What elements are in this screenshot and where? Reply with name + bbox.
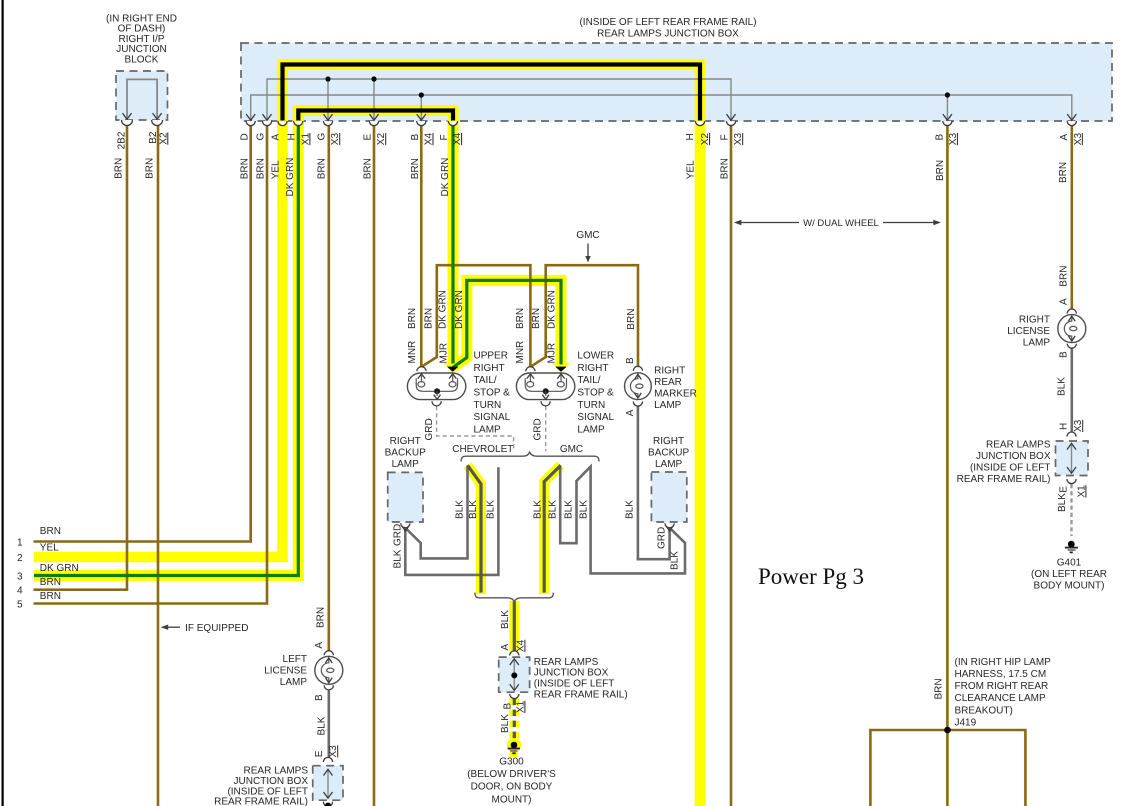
- svg-text:GMC: GMC: [576, 230, 599, 241]
- svg-text:X1: X1: [1076, 485, 1087, 498]
- svg-text:A: A: [625, 409, 636, 416]
- svg-text:DK GRN: DK GRN: [40, 563, 79, 574]
- cups at left license lamp: [324, 651, 333, 656]
- svg-text:RIGHT: RIGHT: [577, 363, 608, 374]
- svg-text:1: 1: [17, 538, 23, 549]
- svg-text:X3: X3: [328, 745, 339, 758]
- pin wedge upper MJR: [447, 367, 458, 372]
- svg-text:H: H: [286, 133, 297, 140]
- lamp: upper right tail/stop and turn signal: [407, 373, 465, 400]
- svg-text:RIGHT: RIGHT: [474, 363, 505, 374]
- svg-text:BLK: BLK: [1057, 493, 1068, 512]
- svg-text:BRN: BRN: [114, 158, 125, 179]
- svg-text:A: A: [271, 134, 282, 141]
- svg-text:BRN: BRN: [933, 678, 944, 699]
- svg-text:REAR FRAME RAIL): REAR FRAME RAIL): [214, 797, 308, 806]
- svg-text:MNR: MNR: [407, 341, 418, 364]
- wire BRN branch lower MNR to marker lamp GMC: [530, 265, 638, 367]
- wire GRD dashed lower tail lamp: [545, 406, 547, 451]
- svg-text:BLK: BLK: [455, 500, 466, 519]
- svg-text:BLK: BLK: [486, 500, 497, 519]
- svg-text:X4: X4: [515, 639, 526, 652]
- connector arrows at junction box exits: [246, 114, 255, 120]
- svg-text:UPPER: UPPER: [474, 351, 508, 362]
- lamp: lower right tail/stop and turn signal: [516, 373, 574, 400]
- svg-text:BLK: BLK: [317, 716, 328, 735]
- svg-text:W/ DUAL WHEEL: W/ DUAL WHEEL: [803, 218, 879, 229]
- svg-text:LOWER: LOWER: [577, 351, 614, 362]
- wire GRD dashed upper tail lamp: [437, 406, 514, 451]
- wire BRN F X3 down page: [730, 125, 733, 806]
- W/ DUAL WHEEL span arrows: [734, 220, 742, 225]
- wire BLK backup Chevrolet drop: [405, 467, 498, 575]
- svg-text:REAR LAMPS: REAR LAMPS: [534, 657, 599, 668]
- node E X2: [371, 76, 376, 81]
- svg-text:X3: X3: [1073, 133, 1084, 146]
- cups at small junction boxes: [510, 651, 519, 656]
- svg-text:HARNESS, 17.5 CM: HARNESS, 17.5 CM: [955, 669, 1047, 680]
- cups at backup lamp pins: [401, 523, 410, 528]
- wire BRN row1 to connector D: [34, 125, 251, 542]
- svg-text:BRN: BRN: [316, 607, 327, 628]
- svg-text:RIGHT: RIGHT: [654, 365, 685, 376]
- svg-text:STOP &: STOP &: [474, 388, 511, 399]
- halo BLK brace to A X4: [509, 601, 519, 651]
- svg-text:X1: X1: [515, 700, 526, 713]
- wire BLK dashed right box to G401: [1070, 484, 1072, 536]
- wire BRN row5 to connector G: [34, 125, 268, 604]
- svg-text:MARKER: MARKER: [654, 388, 697, 399]
- svg-text:BLK: BLK: [500, 610, 511, 629]
- drop wire to G X3: [327, 79, 329, 120]
- svg-text:D: D: [239, 133, 250, 140]
- svg-text:BRN: BRN: [410, 158, 421, 179]
- node B X4: [419, 92, 424, 97]
- brace under ground groups to A X4: [475, 593, 554, 602]
- wire BLK highlighted core Chevrolet: [468, 465, 482, 592]
- svg-text:3: 3: [17, 571, 23, 582]
- svg-text:B: B: [410, 134, 421, 141]
- svg-text:LICENSE: LICENSE: [264, 665, 307, 676]
- halo BLK Chevrolet ground wire: [468, 465, 482, 594]
- svg-text:BLK: BLK: [625, 500, 636, 519]
- svg-text:5: 5: [17, 600, 23, 611]
- wire YEL highlighted: row2, connector A, bus, connector H X2, down page: [34, 65, 700, 806]
- svg-text:X2: X2: [376, 133, 387, 146]
- svg-text:BRN: BRN: [407, 308, 418, 329]
- svg-text:F: F: [720, 134, 731, 140]
- page border left edge: [2, 0, 4, 806]
- svg-text:G300: G300: [499, 757, 524, 768]
- svg-text:F: F: [439, 134, 450, 140]
- svg-text:GMC: GMC: [560, 444, 583, 455]
- svg-text:A: A: [314, 642, 325, 649]
- svg-text:E: E: [363, 134, 374, 141]
- svg-text:REAR LAMPS: REAR LAMPS: [244, 766, 309, 777]
- halo BLK dashed B X1 to G300: [509, 699, 519, 740]
- wire BRN J419 splice bar: [870, 730, 1025, 806]
- svg-text:JUNCTION BOX: JUNCTION BOX: [234, 776, 309, 787]
- wire BLK backup GMC to group: [560, 466, 685, 574]
- bus bar A to H X2 highlighted black: [283, 65, 701, 121]
- svg-text:BRN: BRN: [626, 309, 637, 330]
- rear lamps junction box large dashed box: [241, 43, 1112, 121]
- wire BLK highlighted dashed core B X1 to G300: [513, 699, 516, 739]
- brace over Chevrolet/GMC ground groups: [461, 452, 599, 461]
- svg-text:SIGNAL: SIGNAL: [577, 412, 614, 423]
- svg-text:LAMP: LAMP: [655, 459, 683, 470]
- bus wire G to F X3: [267, 79, 731, 120]
- svg-text:X2: X2: [700, 133, 711, 146]
- svg-text:DK GRN: DK GRN: [285, 158, 296, 197]
- svg-text:REAR FRAME RAIL): REAR FRAME RAIL): [534, 689, 628, 700]
- svg-text:(BELOW DRIVER'S: (BELOW DRIVER'S: [467, 769, 556, 780]
- drop wire to B X4: [420, 95, 422, 120]
- svg-text:MJR: MJR: [547, 343, 558, 364]
- svg-text:LAMP: LAMP: [654, 400, 682, 411]
- wire BRN row4 to 2B2: [34, 125, 128, 590]
- lamp: left license lamp: [315, 656, 343, 684]
- halo DK GRN circuit row3 H X1 bus2 F X4: [34, 111, 453, 576]
- svg-text:TURN: TURN: [577, 400, 605, 411]
- drop wire to B X3: [946, 95, 948, 120]
- svg-text:BRN: BRN: [1059, 266, 1070, 287]
- svg-text:E: E: [1059, 486, 1070, 493]
- svg-text:4: 4: [17, 586, 23, 597]
- svg-text:REAR FRAME RAIL): REAR FRAME RAIL): [957, 474, 1051, 485]
- svg-text:BLK: BLK: [548, 500, 559, 519]
- svg-text:DK GRN: DK GRN: [438, 290, 449, 329]
- svg-text:BLOCK: BLOCK: [125, 55, 159, 66]
- svg-text:BRN: BRN: [515, 308, 526, 329]
- wire BLK right license to right box: [1071, 348, 1074, 432]
- svg-text:(IN RIGHT HIP LAMP: (IN RIGHT HIP LAMP: [955, 657, 1052, 668]
- svg-text:RIGHT: RIGHT: [1019, 315, 1050, 326]
- wire GRD backup Chevrolet to group: [405, 466, 467, 559]
- svg-text:E: E: [314, 750, 325, 757]
- wire BRN G X3 to left license lamp: [327, 125, 330, 651]
- wire BRN branch upper MNR to lower MNR: [422, 265, 531, 367]
- svg-text:BLK: BLK: [500, 714, 511, 733]
- svg-text:X2: X2: [158, 132, 169, 145]
- svg-text:X4: X4: [452, 133, 463, 146]
- wire BRN B2 X2 down page: [157, 125, 160, 806]
- svg-text:BRN: BRN: [145, 158, 156, 179]
- svg-text:YEL: YEL: [686, 160, 697, 179]
- svg-text:BRN: BRN: [424, 308, 435, 329]
- svg-text:H: H: [685, 133, 696, 140]
- halo flare lower MJR: [552, 363, 570, 373]
- svg-text:BLK: BLK: [579, 500, 590, 519]
- right backup lamp GMC dashed box: [651, 472, 686, 522]
- svg-text:BODY MOUNT): BODY MOUNT): [1034, 580, 1105, 591]
- halo DK GRN branch MJR to MJR: [453, 280, 561, 367]
- svg-text:X3: X3: [948, 133, 959, 146]
- center junction box internals: [513, 660, 515, 690]
- wire BLK marker lamp to backup GMC GRD: [638, 406, 670, 559]
- svg-text:GRD: GRD: [424, 418, 435, 440]
- svg-text:YEL: YEL: [271, 160, 282, 179]
- svg-text:G401: G401: [1057, 557, 1082, 568]
- svg-text:REAR LAMPS: REAR LAMPS: [986, 440, 1051, 451]
- svg-text:BRN: BRN: [40, 526, 61, 537]
- connector cups and arrows at I/P block: [122, 120, 133, 126]
- svg-text:GRD: GRD: [532, 418, 543, 440]
- svg-text:TAIL/: TAIL/: [577, 375, 600, 386]
- I/P block internal loop wire: [127, 79, 157, 118]
- left junction box internals: [327, 770, 329, 797]
- bus bar H X1 to F X4 highlighted black: [298, 111, 453, 121]
- svg-text:LICENSE: LICENSE: [1007, 326, 1050, 337]
- svg-text:JUNCTION BOX: JUNCTION BOX: [976, 451, 1051, 462]
- rear lamps junction box small center: [499, 657, 530, 692]
- ground G300: [508, 742, 520, 754]
- svg-text:X3: X3: [1073, 419, 1084, 432]
- right backup lamp Chevrolet dashed box: [388, 472, 423, 522]
- svg-text:MJR: MJR: [438, 343, 449, 364]
- svg-text:LEFT: LEFT: [283, 654, 307, 665]
- svg-text:TAIL/: TAIL/: [474, 375, 497, 386]
- svg-text:CLEARANCE LAMP: CLEARANCE LAMP: [955, 693, 1046, 704]
- svg-text:YEL: YEL: [40, 543, 59, 554]
- junction J419: [944, 727, 951, 734]
- svg-text:LAMP: LAMP: [280, 677, 308, 688]
- svg-text:LAMP: LAMP: [474, 424, 502, 435]
- svg-text:MNR: MNR: [515, 341, 526, 364]
- svg-text:BRN: BRN: [720, 158, 731, 179]
- pin wedge lower MJR: [556, 367, 567, 372]
- svg-text:BRN: BRN: [935, 160, 946, 181]
- svg-text:BRN: BRN: [363, 158, 374, 179]
- svg-text:(INSIDE OF LEFT REAR FRAME RAI: (INSIDE OF LEFT REAR FRAME RAIL): [579, 17, 756, 28]
- lamp: right rear marker lamp: [625, 373, 652, 400]
- svg-text:CHEVROLET: CHEVROLET: [452, 444, 513, 455]
- svg-text:DK GRN: DK GRN: [440, 158, 451, 197]
- svg-text:BRN: BRN: [317, 158, 328, 179]
- svg-text:RIGHT: RIGHT: [390, 436, 421, 447]
- svg-text:RIGHT: RIGHT: [653, 436, 684, 447]
- connector cups at rear lamps junction box exits: [246, 121, 255, 126]
- wire BRN E X2 down page: [373, 125, 376, 806]
- svg-text:DOOR, ON BODY: DOOR, ON BODY: [471, 782, 553, 793]
- pin wedge overlay lower MJR: [556, 367, 567, 372]
- bus wire D to A X3: [251, 95, 1072, 120]
- svg-text:BRN: BRN: [256, 158, 267, 179]
- halo flare upper MJR: [444, 363, 462, 373]
- svg-text:BLK: BLK: [468, 500, 479, 519]
- svg-text:GRD: GRD: [392, 524, 403, 546]
- right junction box internals: [1071, 444, 1073, 473]
- cups at right license lamp: [1067, 309, 1076, 314]
- svg-text:MOUNT): MOUNT): [492, 794, 532, 805]
- svg-text:B: B: [625, 357, 636, 364]
- svg-text:X3: X3: [330, 133, 341, 146]
- svg-text:BRN: BRN: [239, 158, 250, 179]
- svg-text:FROM RIGHT REAR: FROM RIGHT REAR: [955, 681, 1049, 692]
- svg-text:X1: X1: [300, 133, 311, 146]
- svg-text:BRN: BRN: [40, 591, 61, 602]
- svg-text:DK GRN: DK GRN: [454, 290, 465, 329]
- svg-text:SIGNAL: SIGNAL: [474, 412, 511, 423]
- svg-text:DK GRN: DK GRN: [547, 290, 558, 329]
- wire BRN B X4 to upper MNR: [420, 125, 423, 367]
- svg-text:(ON LEFT REAR: (ON LEFT REAR: [1031, 569, 1107, 580]
- svg-text:B: B: [934, 134, 945, 141]
- svg-text:G: G: [256, 133, 267, 141]
- svg-text:X3: X3: [733, 133, 744, 146]
- svg-text:(INSIDE OF LEFT: (INSIDE OF LEFT: [970, 463, 1051, 474]
- cups at marker lamp: [633, 366, 642, 371]
- svg-text:B: B: [314, 694, 325, 701]
- svg-text:LAMP: LAMP: [392, 459, 420, 470]
- rear lamps junction box small right: [1056, 441, 1089, 476]
- halo BLK GMC ground wire: [544, 465, 561, 594]
- halo G300 dot: [507, 738, 522, 753]
- svg-text:BLK: BLK: [564, 500, 575, 519]
- svg-text:JUNCTION BOX: JUNCTION BOX: [534, 668, 609, 679]
- svg-text:BLK: BLK: [533, 500, 544, 519]
- svg-text:X4: X4: [424, 133, 435, 146]
- svg-text:(INSIDE OF LEFT: (INSIDE OF LEFT: [534, 679, 615, 690]
- svg-text:A: A: [500, 644, 511, 651]
- wire DK GRN branch MJR to MJR: [453, 280, 561, 367]
- cups at tail lamp pins: [417, 367, 426, 372]
- wire BLK highlighted core brace to A X4: [513, 602, 516, 651]
- svg-text:BACKUP: BACKUP: [385, 448, 426, 459]
- svg-text:BRN: BRN: [531, 308, 542, 329]
- pin wedge overlay upper MJR: [447, 367, 458, 372]
- wire DK GRN F X4 to upper MJR: [451, 125, 454, 364]
- svg-text:TURN: TURN: [474, 400, 502, 411]
- right I/P junction block dashed box: [116, 71, 168, 120]
- rear lamps junction box small left: [313, 766, 343, 801]
- svg-text:BRN: BRN: [40, 577, 61, 588]
- svg-text:BREAKOUT): BREAKOUT): [955, 705, 1013, 716]
- wire BRN B X3 to J419: [946, 125, 949, 806]
- svg-text:GRD: GRD: [657, 527, 668, 549]
- svg-text:BRN: BRN: [1058, 162, 1069, 183]
- svg-text:(INSIDE OF LEFT: (INSIDE OF LEFT: [227, 786, 308, 797]
- svg-text:BLK: BLK: [392, 549, 403, 568]
- wire DK GRN row3 to H X1: [34, 125, 298, 576]
- svg-text:IF EQUIPPED: IF EQUIPPED: [185, 623, 248, 634]
- svg-text:REAR: REAR: [654, 377, 682, 388]
- lamp: right license lamp: [1058, 315, 1086, 343]
- svg-text:2B2: 2B2: [116, 131, 127, 149]
- svg-text:B: B: [503, 703, 514, 710]
- svg-text:B: B: [1059, 351, 1070, 358]
- wire BLK highlighted core GMC: [544, 465, 561, 592]
- svg-text:STOP &: STOP &: [577, 388, 614, 399]
- svg-text:H: H: [1059, 423, 1070, 430]
- svg-text:BLK: BLK: [670, 551, 681, 570]
- drop wire to E X2: [373, 79, 375, 120]
- wire BRN A X3 to right license lamp: [1071, 125, 1074, 309]
- GMC pointer arrow: [587, 244, 589, 257]
- svg-text:BACKUP: BACKUP: [648, 448, 689, 459]
- svg-text:A: A: [1059, 134, 1070, 141]
- ground G401: [1065, 541, 1078, 553]
- svg-text:BLK: BLK: [1057, 377, 1068, 396]
- svg-text:J419: J419: [955, 717, 977, 728]
- svg-text:2: 2: [17, 553, 23, 564]
- svg-text:LAMP: LAMP: [1023, 338, 1051, 349]
- svg-text:A: A: [1059, 298, 1070, 305]
- svg-text:REAR LAMPS JUNCTION BOX: REAR LAMPS JUNCTION BOX: [597, 29, 739, 40]
- node G X3: [325, 76, 330, 81]
- svg-text:Power Pg 3: Power Pg 3: [758, 564, 864, 589]
- wire BLK left license to left box: [327, 690, 330, 757]
- IF EQUIPPED arrow: [161, 625, 169, 630]
- svg-text:LAMP: LAMP: [577, 424, 605, 435]
- svg-text:G: G: [317, 133, 328, 141]
- node B X3: [945, 92, 950, 97]
